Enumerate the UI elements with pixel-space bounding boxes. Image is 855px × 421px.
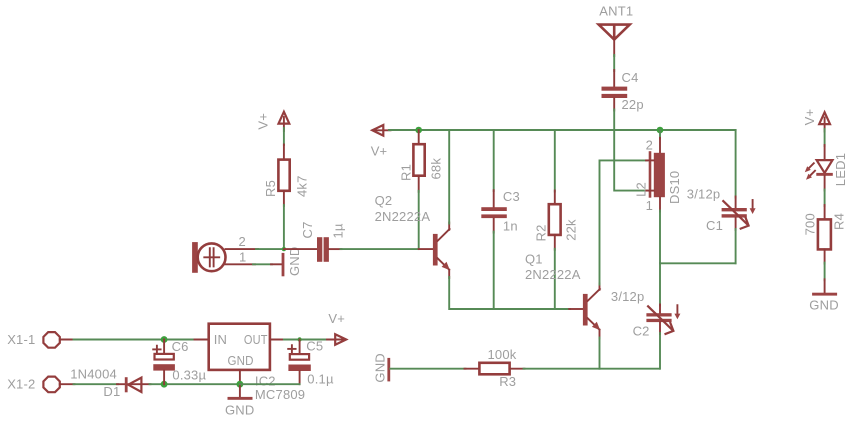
svg-text:IN: IN <box>214 332 227 347</box>
svg-text:DS10: DS10 <box>667 171 682 204</box>
node C5 top junction <box>297 337 301 341</box>
wire coil bottom to tank node <box>659 211 661 264</box>
ground GND (left of R3) <box>372 353 390 383</box>
svg-text:3/12p: 3/12p <box>687 186 721 201</box>
node C6 bottom junction <box>161 381 168 388</box>
svg-text:GND: GND <box>228 353 254 368</box>
capacitor C3 1n <box>481 189 520 234</box>
node mic/R5/C7 junction <box>282 247 286 251</box>
wire Q1 emitter down <box>599 338 601 369</box>
wire top V+ rail <box>389 129 736 131</box>
resistor R2 <box>533 191 578 250</box>
svg-text:2: 2 <box>239 234 246 249</box>
node IC2 gnd junction <box>237 381 244 388</box>
svg-text:LED1: LED1 <box>833 153 848 186</box>
wire GND to R3 <box>390 368 465 370</box>
svg-text:0.33µ: 0.33µ <box>172 367 206 382</box>
svg-text:GND: GND <box>809 297 839 312</box>
diode D1 1N4004 <box>70 367 150 399</box>
svg-text:GND: GND <box>287 247 302 277</box>
wire Q2 emitter down and right <box>449 277 570 309</box>
wire antenna to C4 <box>613 55 615 71</box>
svg-text:Q1: Q1 <box>525 252 543 267</box>
wire tank node down to C2 <box>659 263 661 305</box>
capacitor C6 (electrolytic 0.33u) <box>153 339 206 384</box>
wire C3 bottom to emitter rail <box>493 232 495 309</box>
svg-text:1n: 1n <box>503 219 518 234</box>
wire tank node horizontal <box>660 262 736 264</box>
wire R4 to GND <box>824 263 826 281</box>
svg-text:X1-1: X1-1 <box>7 332 35 347</box>
svg-text:R5: R5 <box>263 180 278 197</box>
wire C3 top from rail <box>493 130 495 191</box>
wire C7 to Q2 base node <box>341 248 419 250</box>
wire R5 to mic node <box>283 205 285 249</box>
svg-text:X1-2: X1-2 <box>7 377 35 392</box>
trimmer capacitor C1 3/12p <box>687 186 756 233</box>
svg-text:C1: C1 <box>706 218 723 233</box>
svg-text:R4: R4 <box>832 213 847 230</box>
svg-text:4k7: 4k7 <box>294 175 309 197</box>
svg-text:GND: GND <box>225 403 255 418</box>
capacitor C7 <box>284 221 346 261</box>
svg-text:22k: 22k <box>563 219 578 241</box>
LED LED1 <box>805 145 848 191</box>
power V+ symbol (above R5) <box>256 112 290 131</box>
power V+ symbol (right chain) <box>802 109 830 132</box>
svg-text:3/12p: 3/12p <box>611 289 645 304</box>
resistor R1 <box>399 130 444 192</box>
svg-text:V+: V+ <box>802 109 817 126</box>
svg-text:22p: 22p <box>622 97 644 112</box>
wire V+ to LED1 <box>824 129 826 146</box>
wire X1-1 to IC2 IN <box>74 339 195 341</box>
svg-text:C4: C4 <box>622 70 639 85</box>
wire X1-2 to D1 <box>74 383 119 385</box>
svg-text:1N4004: 1N4004 <box>70 367 117 382</box>
wire R2 bottom to Q1 base node <box>554 249 556 309</box>
svg-text:D1: D1 <box>103 384 120 399</box>
svg-text:L2: L2 <box>633 182 648 197</box>
microphone MIC <box>192 234 258 273</box>
svg-text:V+: V+ <box>371 143 388 158</box>
wire R3 to C2 node <box>524 368 660 370</box>
svg-text:Q2: Q2 <box>375 193 393 208</box>
svg-text:68k: 68k <box>428 158 443 180</box>
resistor R3 100k <box>465 347 525 389</box>
power V+ symbol (right of C5, output) <box>327 311 346 345</box>
wire IC2 OUT to V+ <box>284 339 328 341</box>
svg-text:V+: V+ <box>328 311 345 326</box>
wire mic pin1 to ground <box>253 263 272 265</box>
svg-text:R1: R1 <box>399 164 414 181</box>
transistor Q2 2N2222A <box>375 193 450 278</box>
wire D1 to C6 bottom node <box>150 383 241 385</box>
trimmer capacitor C2 3/12p <box>611 289 681 339</box>
svg-text:R2: R2 <box>533 224 548 241</box>
capacitor C5 (electrolytic 0.1u) <box>288 339 334 387</box>
svg-text:0.1µ: 0.1µ <box>307 372 334 387</box>
svg-text:C6: C6 <box>172 339 189 354</box>
svg-text:2N2222A: 2N2222A <box>525 267 581 282</box>
svg-text:R3: R3 <box>499 374 516 389</box>
IC2 MC7809 regulator <box>195 324 306 402</box>
node C6 top junction <box>161 336 168 343</box>
resistor R5 <box>263 145 309 206</box>
svg-text:OUT: OUT <box>244 332 268 347</box>
wire C5 bottom to gnd rail <box>240 383 300 385</box>
mic pin 1 <box>226 263 256 265</box>
wire Q1 collector up to coil tap <box>600 160 648 284</box>
svg-text:GND: GND <box>372 353 387 383</box>
capacitor C4 22p <box>602 70 644 112</box>
svg-text:MC7809: MC7809 <box>255 387 305 402</box>
ground GND (below IC2) <box>225 384 255 417</box>
wire R2 top from rail <box>554 130 556 192</box>
svg-text:1µ: 1µ <box>330 223 345 238</box>
svg-text:2N2222A: 2N2222A <box>375 209 431 224</box>
ground GND (right chain) <box>809 279 839 312</box>
wire C4 down across rail to coil tap <box>614 110 647 191</box>
svg-text:C3: C3 <box>503 189 520 204</box>
power V+ symbol (left end of top rail) <box>371 125 391 158</box>
ground GND (mic) <box>271 247 302 277</box>
wire C1 branch from rail <box>735 130 737 198</box>
wire R1 to Q2 base node <box>418 191 420 249</box>
resistor R4 700 <box>802 205 846 264</box>
transistor Q1 2N2222A <box>525 252 600 339</box>
svg-text:ANT1: ANT1 <box>599 4 633 19</box>
node coil top junction <box>657 127 664 134</box>
wire LED1 to R4 <box>824 190 826 207</box>
inductor L2 DS10 <box>633 130 682 213</box>
svg-text:100k: 100k <box>488 347 517 362</box>
svg-text:1: 1 <box>646 198 653 213</box>
connector X1-1 <box>7 332 74 348</box>
svg-text:C7: C7 <box>300 221 315 238</box>
antenna ANT1 <box>599 4 634 57</box>
wire C1 bottom to tank node <box>735 229 737 263</box>
wire mic pin2 to node <box>256 248 284 250</box>
node R1 top junction <box>415 127 422 134</box>
svg-text:C2: C2 <box>633 324 650 339</box>
svg-text:C5: C5 <box>306 339 323 354</box>
wire C2 bottom to R3 node <box>659 333 661 369</box>
svg-text:V+: V+ <box>256 113 271 130</box>
mic pin 2 <box>226 248 259 250</box>
svg-text:700: 700 <box>802 213 817 235</box>
svg-text:1: 1 <box>239 250 246 265</box>
wire V+ to R5 <box>283 128 285 145</box>
svg-text:2: 2 <box>646 137 653 152</box>
wire Q2 collector to rail <box>448 130 450 224</box>
connector X1-2 <box>7 377 74 393</box>
